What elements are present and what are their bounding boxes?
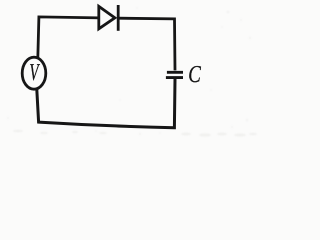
svg-text:C: C (188, 61, 201, 88)
